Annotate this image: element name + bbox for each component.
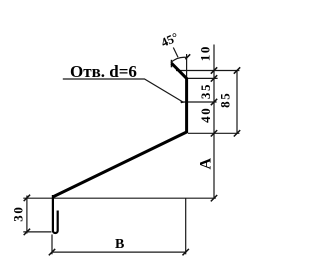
svg-text:B: B (115, 237, 124, 252)
svg-text:40: 40 (198, 107, 213, 123)
svg-text:85: 85 (218, 92, 233, 108)
svg-text:30: 30 (11, 205, 26, 221)
svg-text:35: 35 (198, 83, 213, 99)
svg-text:10: 10 (198, 45, 213, 61)
svg-text:A: A (197, 157, 214, 169)
svg-text:Отв. d=6: Отв. d=6 (70, 62, 137, 81)
